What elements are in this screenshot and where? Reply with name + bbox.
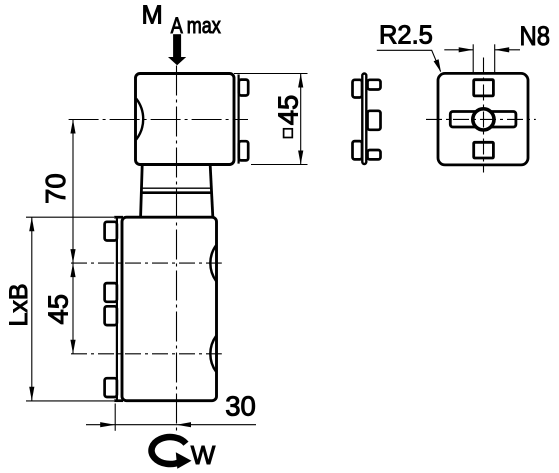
extension line 30 left — [114, 404, 116, 431]
dimension N8 extension left — [472, 44, 474, 74]
arrow square45 top — [298, 74, 303, 88]
detail front view vertical centerline — [483, 58, 485, 173]
lower block clamp tab 4 — [105, 378, 117, 397]
extension line square45 top — [234, 73, 308, 75]
lower block clamp bar line — [116, 218, 118, 399]
extension line LxB top — [26, 216, 114, 218]
upper block left lens boss — [136, 99, 143, 140]
extension line square45 bottom — [251, 164, 308, 166]
neck joint line — [142, 187, 212, 189]
arrow 70 top — [70, 120, 75, 134]
neck right edge — [210, 165, 213, 216]
arrow LxB top — [29, 217, 34, 231]
svg-text:45: 45 — [43, 294, 74, 325]
arrow N8 right — [495, 47, 510, 52]
upper block body — [136, 74, 235, 165]
leader R2.5 line — [377, 50, 441, 71]
dimension N8 extension right — [494, 44, 496, 74]
lower block clamp tab 3 — [105, 306, 117, 325]
detail front view center hole — [473, 109, 494, 130]
dimension 30 line — [86, 424, 256, 426]
extension line LxB bottom — [26, 400, 114, 402]
lower block right lens boss upper — [210, 245, 216, 281]
detail side view right tab top — [368, 80, 381, 90]
lower block bottom edge over plate — [114, 399, 123, 402]
svg-text:45: 45 — [272, 95, 303, 126]
arrow 45 bottom — [70, 340, 75, 354]
svg-text:M: M — [142, 1, 163, 29]
arrow square45 bottom — [298, 151, 303, 165]
wire hole centerline upper hole — [71, 262, 222, 264]
detail front view top nut pocket — [474, 80, 494, 96]
leader R2.5 arrow — [434, 59, 441, 72]
dimension N8 tail right — [495, 49, 520, 51]
arrow N8 left — [459, 47, 474, 52]
wire vertical centerline of main view — [176, 66, 178, 432]
torque arrow M head — [168, 57, 186, 65]
arrow 70 bottom — [70, 249, 75, 263]
neck left edge — [141, 165, 143, 216]
lower block clamp tab 1 — [105, 222, 117, 241]
detail front view bottom nut pocket — [474, 142, 494, 158]
svg-text:70: 70 — [40, 173, 71, 204]
upper block clamp tab bottom — [239, 141, 248, 160]
detail side view left tab top — [353, 80, 363, 98]
wire horizontal centerline upper block — [69, 119, 248, 121]
detail side view bar — [362, 74, 366, 165]
dimension LxB line — [31, 217, 33, 400]
label square45 square symbol — [284, 129, 293, 138]
rotation arrow W arc — [152, 437, 186, 464]
detail front view body — [438, 73, 528, 164]
detail side view left tab bottom — [353, 141, 363, 159]
upper block clamp bar line — [238, 75, 240, 164]
arrow 30 right — [177, 422, 192, 427]
detail front view horizontal centerline — [426, 118, 536, 120]
lower block body — [122, 217, 217, 401]
svg-text:W: W — [191, 440, 216, 470]
svg-text:R2.5: R2.5 — [379, 22, 433, 50]
neck joint thick line — [141, 191, 211, 194]
arrow 45 top — [70, 263, 75, 277]
detail front view slot — [450, 112, 516, 128]
lower block top edge over plate — [114, 216, 123, 219]
upper block clamp tab top — [239, 80, 248, 96]
dimension N8 tail left — [444, 49, 473, 51]
arrow LxB bottom — [29, 387, 34, 401]
svg-text:30: 30 — [225, 391, 256, 422]
dimension 70-45 line — [72, 120, 74, 354]
detail side view right tab middle — [368, 111, 381, 130]
arrow 30 left — [100, 422, 115, 427]
dimension square45 line — [300, 74, 302, 165]
rotation arrow W head — [176, 452, 192, 469]
svg-text:LxB: LxB — [5, 283, 33, 326]
lower block right lens boss lower — [210, 336, 216, 372]
svg-text:N8: N8 — [520, 21, 551, 51]
wire hole centerline lower hole — [71, 353, 222, 355]
lower block clamp tab 2 — [105, 283, 117, 302]
detail side view right tab bottom — [368, 150, 381, 159]
torque arrow M stem — [173, 34, 181, 57]
